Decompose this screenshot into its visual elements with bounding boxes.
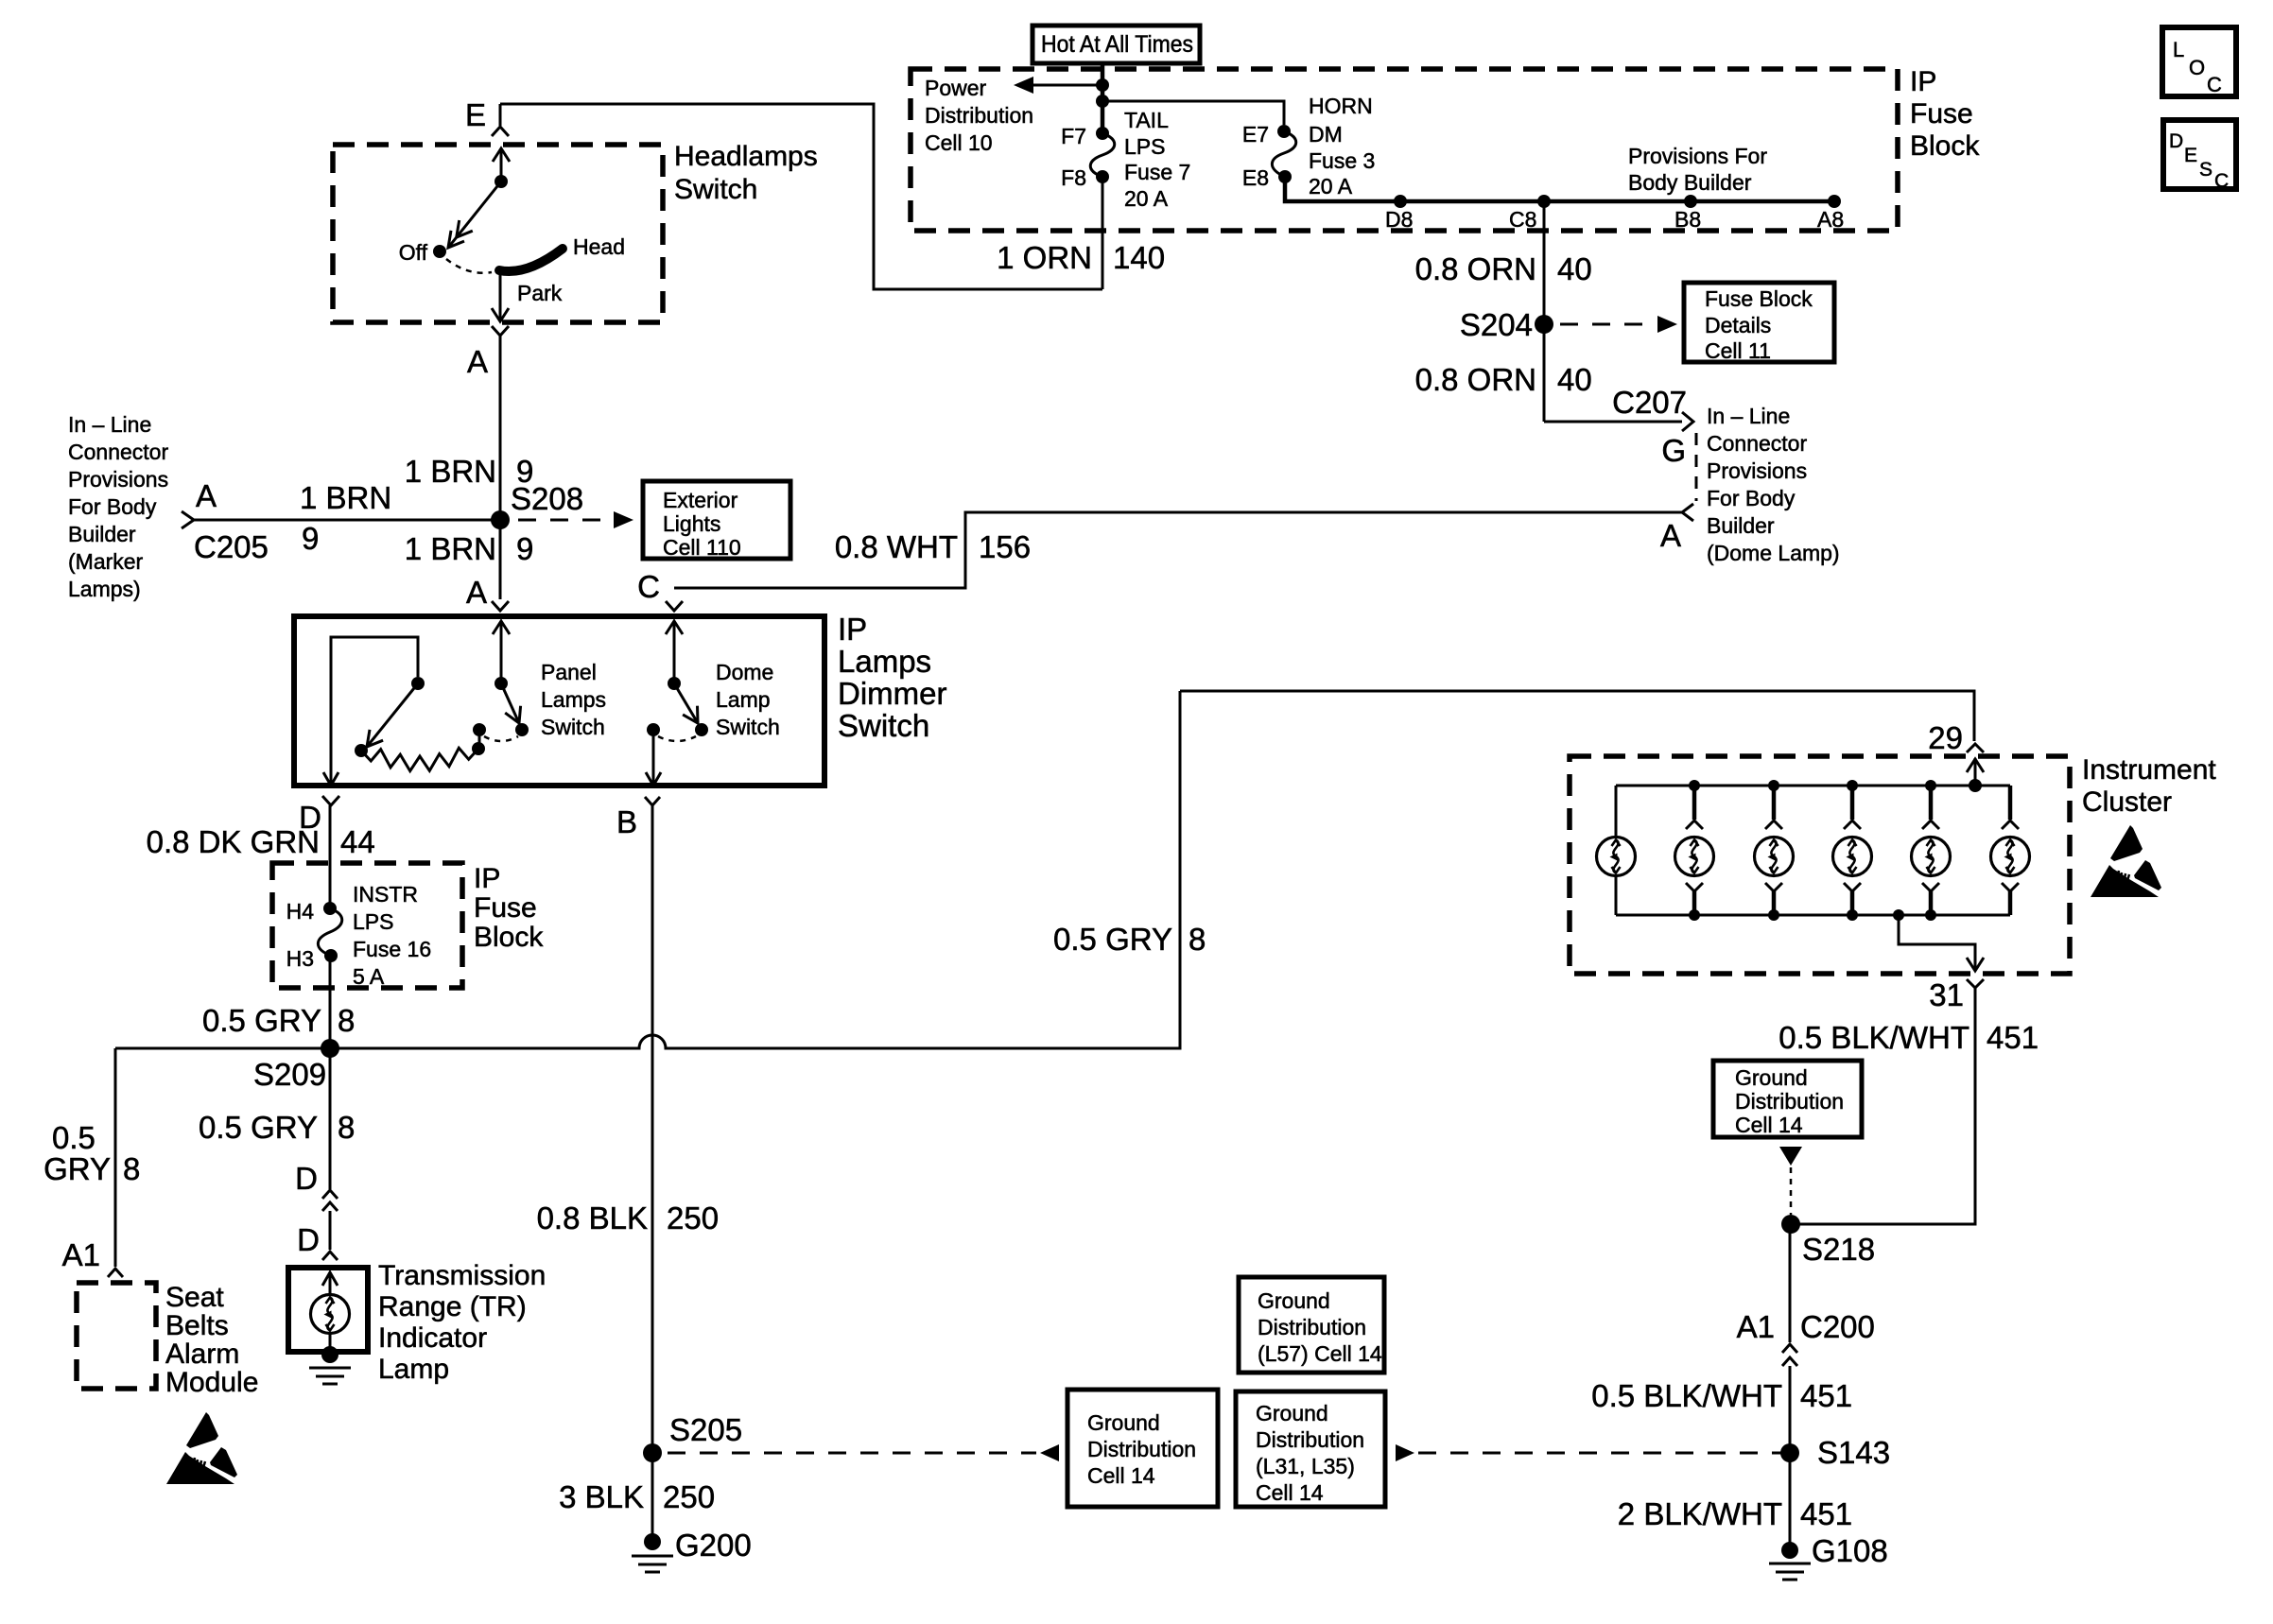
svg-text:0.8 DK GRN: 0.8 DK GRN — [147, 824, 320, 859]
svg-text:140: 140 — [1113, 240, 1165, 275]
svg-text:HORN: HORN — [1309, 94, 1373, 118]
svg-text:A: A — [466, 575, 487, 610]
svg-text:INSTR: INSTR — [353, 882, 418, 907]
svg-text:S: S — [2199, 159, 2212, 181]
svg-text:C207: C207 — [1612, 385, 1687, 420]
svg-text:LPS: LPS — [1124, 134, 1165, 159]
svg-text:Cell 110: Cell 110 — [663, 535, 741, 560]
svg-text:Indicator: Indicator — [378, 1322, 487, 1354]
svg-text:Instrument: Instrument — [2082, 754, 2216, 786]
Head-Park contact strip (thick arc) — [499, 249, 563, 271]
ESD symbol (seat belts) — [166, 1412, 237, 1484]
lamp IL1 (instrument cluster illumination) — [1615, 786, 1618, 838]
headlamps switch dashed box — [333, 145, 663, 322]
svg-text:Off: Off — [399, 240, 428, 265]
svg-text:44: 44 — [340, 824, 375, 859]
svg-text:Dimmer: Dimmer — [838, 676, 946, 711]
Ground Distribution Cell 14 box (left) — [1067, 1390, 1218, 1507]
connector B below dimmer — [645, 797, 660, 805]
svg-text:0.8 BLK: 0.8 BLK — [537, 1201, 648, 1235]
node: panel switch pivot — [495, 677, 508, 690]
wire: E8 down and right to A8 — [1285, 177, 1834, 201]
svg-text:1 BRN: 1 BRN — [405, 454, 496, 489]
wire S218 down — [1788, 1224, 1791, 1342]
svg-text:Alarm: Alarm — [165, 1339, 239, 1370]
svg-text:Connector: Connector — [68, 440, 168, 464]
svg-text:Panel: Panel — [541, 660, 597, 684]
svg-text:A1: A1 — [62, 1237, 100, 1272]
svg-text:F8: F8 — [1061, 165, 1086, 190]
connector C200 — [1782, 1344, 1797, 1353]
svg-text:Lights: Lights — [663, 511, 720, 536]
svg-text:Lamps: Lamps — [838, 644, 931, 679]
svg-text:250: 250 — [667, 1201, 719, 1235]
in-line connector dashed body — [1695, 433, 1698, 501]
svg-text:Ground: Ground — [1087, 1410, 1160, 1435]
splice S205 — [643, 1443, 662, 1462]
svg-text:Range (TR): Range (TR) — [378, 1291, 527, 1322]
rheostat wiring — [478, 730, 481, 749]
svg-text:0.8 ORN: 0.8 ORN — [1415, 362, 1536, 397]
svg-text:Lamps): Lamps) — [68, 577, 141, 601]
node: dome switch pivot — [668, 677, 681, 690]
svg-text:Provisions: Provisions — [1707, 458, 1807, 483]
splice S208 — [491, 510, 510, 529]
svg-text:Transmission: Transmission — [378, 1260, 546, 1291]
svg-text:20 A: 20 A — [1309, 174, 1353, 199]
svg-text:29: 29 — [1928, 720, 1963, 755]
svg-text:E: E — [2184, 145, 2197, 166]
svg-text:Hot At All Times: Hot At All Times — [1041, 31, 1193, 58]
svg-text:156: 156 — [979, 529, 1031, 564]
connector C205 A half — [182, 511, 194, 528]
svg-text:A: A — [467, 344, 488, 379]
svg-text:(L31, L35): (L31, L35) — [1256, 1454, 1355, 1478]
splice S204 — [1535, 315, 1553, 334]
Exterior Lights Cell 110 box — [643, 481, 790, 559]
svg-text:3 BLK: 3 BLK — [559, 1479, 644, 1514]
ground G108 — [1781, 1542, 1798, 1559]
svg-text:0.5: 0.5 — [52, 1120, 95, 1155]
svg-text:Builder: Builder — [1707, 513, 1775, 538]
svg-text:Seat: Seat — [165, 1282, 224, 1313]
wire 1 BRN 9 to S208 — [194, 518, 500, 521]
connector A into dimmer switch — [492, 601, 509, 611]
lamp IL3 (instrument cluster illumination) — [1768, 780, 1779, 791]
svg-text:IP: IP — [838, 612, 867, 647]
svg-text:1 BRN: 1 BRN — [300, 480, 391, 515]
svg-text:DM: DM — [1309, 122, 1343, 147]
dashed travel arc — [446, 259, 492, 273]
svg-text:Block: Block — [1910, 130, 1980, 162]
svg-text:Belts: Belts — [165, 1310, 229, 1341]
svg-text:5 A: 5 A — [353, 964, 385, 989]
wire Park down to A with down arrow — [499, 270, 502, 320]
svg-text:Headlamps: Headlamps — [674, 141, 818, 172]
ground G200 — [644, 1533, 661, 1550]
dome switch output down — [652, 730, 655, 784]
svg-text:S205: S205 — [669, 1412, 742, 1447]
solid arrow down from box — [1779, 1147, 1802, 1166]
svg-text:451: 451 — [1800, 1496, 1852, 1531]
node: junction dots on feed wire — [1096, 78, 1109, 92]
wire to C207 G pin — [1544, 421, 1682, 423]
svg-text:For Body: For Body — [1707, 486, 1796, 510]
svg-text:C200: C200 — [1800, 1309, 1875, 1344]
wire: feed down to F7 — [1101, 85, 1105, 133]
node C8 — [1537, 195, 1551, 208]
lamp IL5 (instrument cluster illumination) — [1925, 780, 1936, 791]
svg-text:8: 8 — [338, 1003, 355, 1038]
Fuse Block Details Cell 11 box — [1684, 283, 1834, 362]
wire C8 down to C207 — [1543, 201, 1546, 422]
node D8 — [1394, 195, 1407, 208]
svg-text:Cell 11: Cell 11 — [1705, 338, 1771, 363]
svg-text:1 ORN: 1 ORN — [997, 240, 1092, 275]
svg-text:Cell 14: Cell 14 — [1087, 1463, 1155, 1488]
svg-text:S204: S204 — [1460, 307, 1533, 342]
connector C207 G half — [1682, 412, 1693, 431]
svg-text:Distribution: Distribution — [1256, 1427, 1364, 1452]
wire S209 down to D connector — [328, 1048, 331, 1189]
wire A down to S208 — [499, 336, 502, 599]
connector A half (dome lamp) — [1682, 504, 1693, 521]
fuse H4/H3 INSTR LPS Fuse 16 — [323, 902, 337, 915]
svg-text:Fuse: Fuse — [1910, 98, 1973, 130]
lamp IL6 (instrument cluster illumination) — [2008, 786, 2013, 820]
dome lamp switch entry arrow — [673, 621, 676, 683]
svg-text:2 BLK/WHT: 2 BLK/WHT — [1618, 1496, 1782, 1531]
svg-text:D: D — [2169, 130, 2183, 152]
wire into switch with up arrow — [500, 149, 503, 181]
wire H3 down to S209 — [328, 956, 331, 1048]
svg-text:C: C — [2207, 73, 2222, 96]
svg-text:40: 40 — [1557, 251, 1592, 286]
svg-text:Lamp: Lamp — [378, 1354, 449, 1385]
svg-text:L: L — [2173, 38, 2184, 61]
IP fuse block dashed box — [911, 69, 1898, 231]
splice S143 — [1780, 1443, 1799, 1462]
svg-text:250: 250 — [663, 1479, 715, 1514]
svg-text:For Body: For Body — [68, 494, 157, 519]
svg-text:In – Line: In – Line — [1707, 404, 1790, 428]
left branch to seat belts module — [113, 1048, 116, 1267]
svg-text:O: O — [2189, 56, 2205, 79]
svg-text:(Marker: (Marker — [68, 549, 144, 574]
svg-text:8: 8 — [123, 1151, 140, 1186]
svg-text:20 A: 20 A — [1124, 186, 1169, 211]
TR lamp box — [288, 1268, 368, 1352]
switch blade arm toward Off — [448, 181, 501, 248]
svg-text:In – Line: In – Line — [68, 412, 151, 437]
svg-text:Ground: Ground — [1258, 1288, 1330, 1313]
dashed link to S143 — [1396, 1444, 1414, 1461]
node: rheostat wiper pivot — [411, 677, 425, 690]
svg-text:0.8 WHT: 0.8 WHT — [835, 529, 958, 564]
svg-text:451: 451 — [1800, 1378, 1852, 1413]
fuse E7/E8 HORN DM Fuse 3 — [1277, 125, 1291, 138]
svg-text:TAIL: TAIL — [1124, 108, 1169, 132]
wire D down to H4 — [328, 805, 331, 908]
feed wire to pin 29 — [1180, 691, 1974, 741]
svg-text:Fuse 7: Fuse 7 — [1124, 160, 1190, 184]
rheostat resistive element — [355, 744, 368, 757]
Ground Distribution (L57) Cell 14 box — [1239, 1277, 1384, 1373]
svg-text:A1: A1 — [1737, 1309, 1775, 1344]
svg-text:(L57) Cell 14: (L57) Cell 14 — [1258, 1341, 1382, 1366]
svg-text:Cell 10: Cell 10 — [925, 130, 993, 155]
node: Off contact — [433, 245, 446, 258]
svg-text:E: E — [465, 97, 486, 132]
svg-text:S143: S143 — [1817, 1435, 1890, 1470]
wire from Hot box into fuse block — [1101, 63, 1105, 87]
panel switch blade — [501, 683, 519, 723]
svg-text:A: A — [196, 478, 217, 513]
svg-text:E7: E7 — [1242, 122, 1269, 147]
svg-text:C: C — [2214, 170, 2229, 192]
svg-text:31: 31 — [1929, 977, 1964, 1012]
svg-text:B8: B8 — [1674, 207, 1701, 232]
svg-text:0.8 ORN: 0.8 ORN — [1415, 251, 1536, 286]
ESD symbol (cluster) — [2091, 825, 2161, 897]
svg-text:Provisions: Provisions — [68, 467, 168, 492]
bottom rail — [1616, 914, 2010, 917]
wire pin31 down to S218 — [1791, 988, 1975, 1224]
svg-text:Provisions For: Provisions For — [1628, 144, 1767, 168]
connector C into dimmer switch — [666, 601, 683, 611]
in-line connector D/D — [322, 1190, 338, 1199]
svg-text:C205: C205 — [194, 529, 269, 564]
svg-text:Switch: Switch — [674, 174, 757, 205]
svg-text:Body Builder: Body Builder — [1628, 170, 1752, 195]
arrow to Power Distribution — [1031, 83, 1102, 86]
svg-text:Ground: Ground — [1735, 1065, 1808, 1090]
svg-text:Exterior: Exterior — [663, 488, 738, 512]
connector E — [499, 104, 502, 126]
bus wire with hop over B wire — [115, 691, 1180, 1048]
svg-text:A8: A8 — [1817, 207, 1844, 232]
connector pin 29 — [1967, 744, 1984, 752]
svg-text:C: C — [637, 569, 660, 604]
svg-text:F7: F7 — [1061, 124, 1086, 148]
node: switch pivot — [495, 175, 508, 188]
svg-text:9: 9 — [302, 521, 319, 556]
svg-text:0.5 BLK/WHT: 0.5 BLK/WHT — [1778, 1020, 1969, 1055]
ground at TR lamp — [321, 1346, 338, 1363]
svg-text:Fuse 16: Fuse 16 — [353, 937, 431, 961]
svg-text:Ground: Ground — [1256, 1401, 1328, 1425]
svg-text:GRY: GRY — [43, 1151, 111, 1186]
svg-text:Details: Details — [1705, 313, 1771, 337]
svg-text:S208: S208 — [511, 481, 583, 516]
svg-text:G108: G108 — [1812, 1533, 1888, 1568]
svg-text:Distribution: Distribution — [925, 103, 1033, 128]
svg-text:40: 40 — [1557, 362, 1592, 397]
svg-text:B: B — [616, 804, 637, 839]
wire: branch to HORN fuse — [1102, 101, 1284, 125]
svg-text:Builder: Builder — [68, 522, 136, 546]
splice S209 — [321, 1039, 339, 1058]
node B8 — [1684, 195, 1697, 208]
Hot At All Times box — [1032, 26, 1200, 63]
svg-text:Park: Park — [517, 281, 563, 305]
svg-text:Fuse 3: Fuse 3 — [1309, 148, 1375, 173]
svg-text:S218: S218 — [1802, 1232, 1875, 1267]
svg-text:8: 8 — [338, 1110, 355, 1145]
dome switch blade — [674, 683, 698, 723]
svg-text:Power: Power — [925, 76, 987, 100]
node: dome contacts — [695, 723, 708, 736]
svg-text:Distribution: Distribution — [1087, 1437, 1196, 1461]
svg-text:9: 9 — [516, 531, 533, 566]
connector pin 31 — [1967, 979, 1984, 988]
svg-text:Distribution: Distribution — [1258, 1315, 1366, 1339]
svg-text:Fuse: Fuse — [474, 892, 537, 924]
svg-text:H4: H4 — [286, 899, 315, 924]
svg-text:H3: H3 — [286, 946, 314, 971]
svg-text:IP: IP — [1910, 66, 1936, 97]
fuse F7/F8 TAIL LPS Fuse 7 — [1096, 127, 1109, 140]
IP fuse block (lower) dashed box — [272, 863, 462, 988]
svg-text:Lamps: Lamps — [541, 687, 606, 712]
node: pin 31 tap — [1893, 909, 1904, 921]
svg-text:8: 8 — [1189, 922, 1206, 957]
svg-text:A: A — [1660, 518, 1681, 553]
svg-text:D: D — [295, 1161, 318, 1196]
svg-text:Switch: Switch — [716, 715, 780, 739]
instrument cluster dashed box — [1570, 756, 2070, 974]
svg-text:0.5 GRY: 0.5 GRY — [199, 1110, 318, 1145]
svg-text:0.5 BLK/WHT: 0.5 BLK/WHT — [1591, 1378, 1782, 1413]
svg-text:Block: Block — [474, 922, 544, 953]
svg-text:(Dome Lamp): (Dome Lamp) — [1707, 541, 1840, 565]
svg-text:1 BRN: 1 BRN — [405, 531, 496, 566]
node: panel contacts — [515, 723, 529, 736]
svg-text:D8: D8 — [1385, 207, 1413, 232]
svg-text:D: D — [297, 1222, 320, 1257]
svg-text:C8: C8 — [1509, 207, 1536, 232]
wire from headlamps E: up, across, down, to 1 ORN wire — [500, 104, 1102, 289]
svg-text:Cell 14: Cell 14 — [1256, 1480, 1324, 1505]
wire B down to G200 — [651, 805, 653, 1542]
connector A1 — [108, 1269, 123, 1277]
Ground Distribution Cell 14 box (right) — [1713, 1061, 1862, 1137]
svg-text:451: 451 — [1987, 1020, 2039, 1055]
splice S218 — [1781, 1215, 1800, 1234]
svg-text:Dome: Dome — [716, 660, 773, 684]
svg-text:0.5 GRY: 0.5 GRY — [202, 1003, 321, 1038]
lamp TR indicator bulb — [310, 1294, 349, 1333]
svg-text:Distribution: Distribution — [1735, 1089, 1844, 1114]
wire 1 ORN 140 below F8 — [1102, 177, 1104, 289]
svg-text:IP: IP — [474, 863, 500, 894]
lamp IL2 (instrument cluster illumination) — [1689, 780, 1700, 791]
svg-text:Lamp: Lamp — [716, 687, 771, 712]
Ground Distribution (L31, L35) Cell 14 box — [1236, 1391, 1385, 1507]
svg-text:Switch: Switch — [541, 715, 605, 739]
svg-text:Head: Head — [573, 234, 625, 259]
svg-text:0.5 GRY: 0.5 GRY — [1053, 922, 1172, 957]
connector D at lamp — [322, 1252, 338, 1260]
Seat Belts Alarm Module dashed box — [77, 1283, 156, 1389]
svg-text:Cluster: Cluster — [2082, 786, 2172, 818]
svg-text:LPS: LPS — [353, 909, 393, 934]
top rail — [1616, 785, 2010, 787]
svg-text:S209: S209 — [253, 1057, 326, 1092]
svg-text:G: G — [1661, 433, 1686, 468]
panel lamps switch entry arrow — [500, 621, 503, 683]
svg-text:Module: Module — [165, 1367, 258, 1398]
svg-text:E8: E8 — [1242, 165, 1269, 190]
svg-text:G200: G200 — [675, 1528, 752, 1563]
node A8 — [1828, 195, 1841, 208]
connector A below switch — [492, 326, 509, 336]
wire 0.8 WHT 156 from dimmer C to dome lamp A — [674, 512, 1682, 588]
entry arrow at pin 29 — [1974, 758, 1977, 786]
svg-text:Switch: Switch — [838, 708, 929, 743]
connector D below dimmer — [322, 796, 339, 805]
svg-text:Cell 14: Cell 14 — [1735, 1113, 1803, 1137]
svg-text:Connector: Connector — [1707, 431, 1807, 456]
lamp IL4 (instrument cluster illumination) — [1847, 780, 1858, 791]
svg-text:Fuse Block: Fuse Block — [1705, 286, 1813, 311]
